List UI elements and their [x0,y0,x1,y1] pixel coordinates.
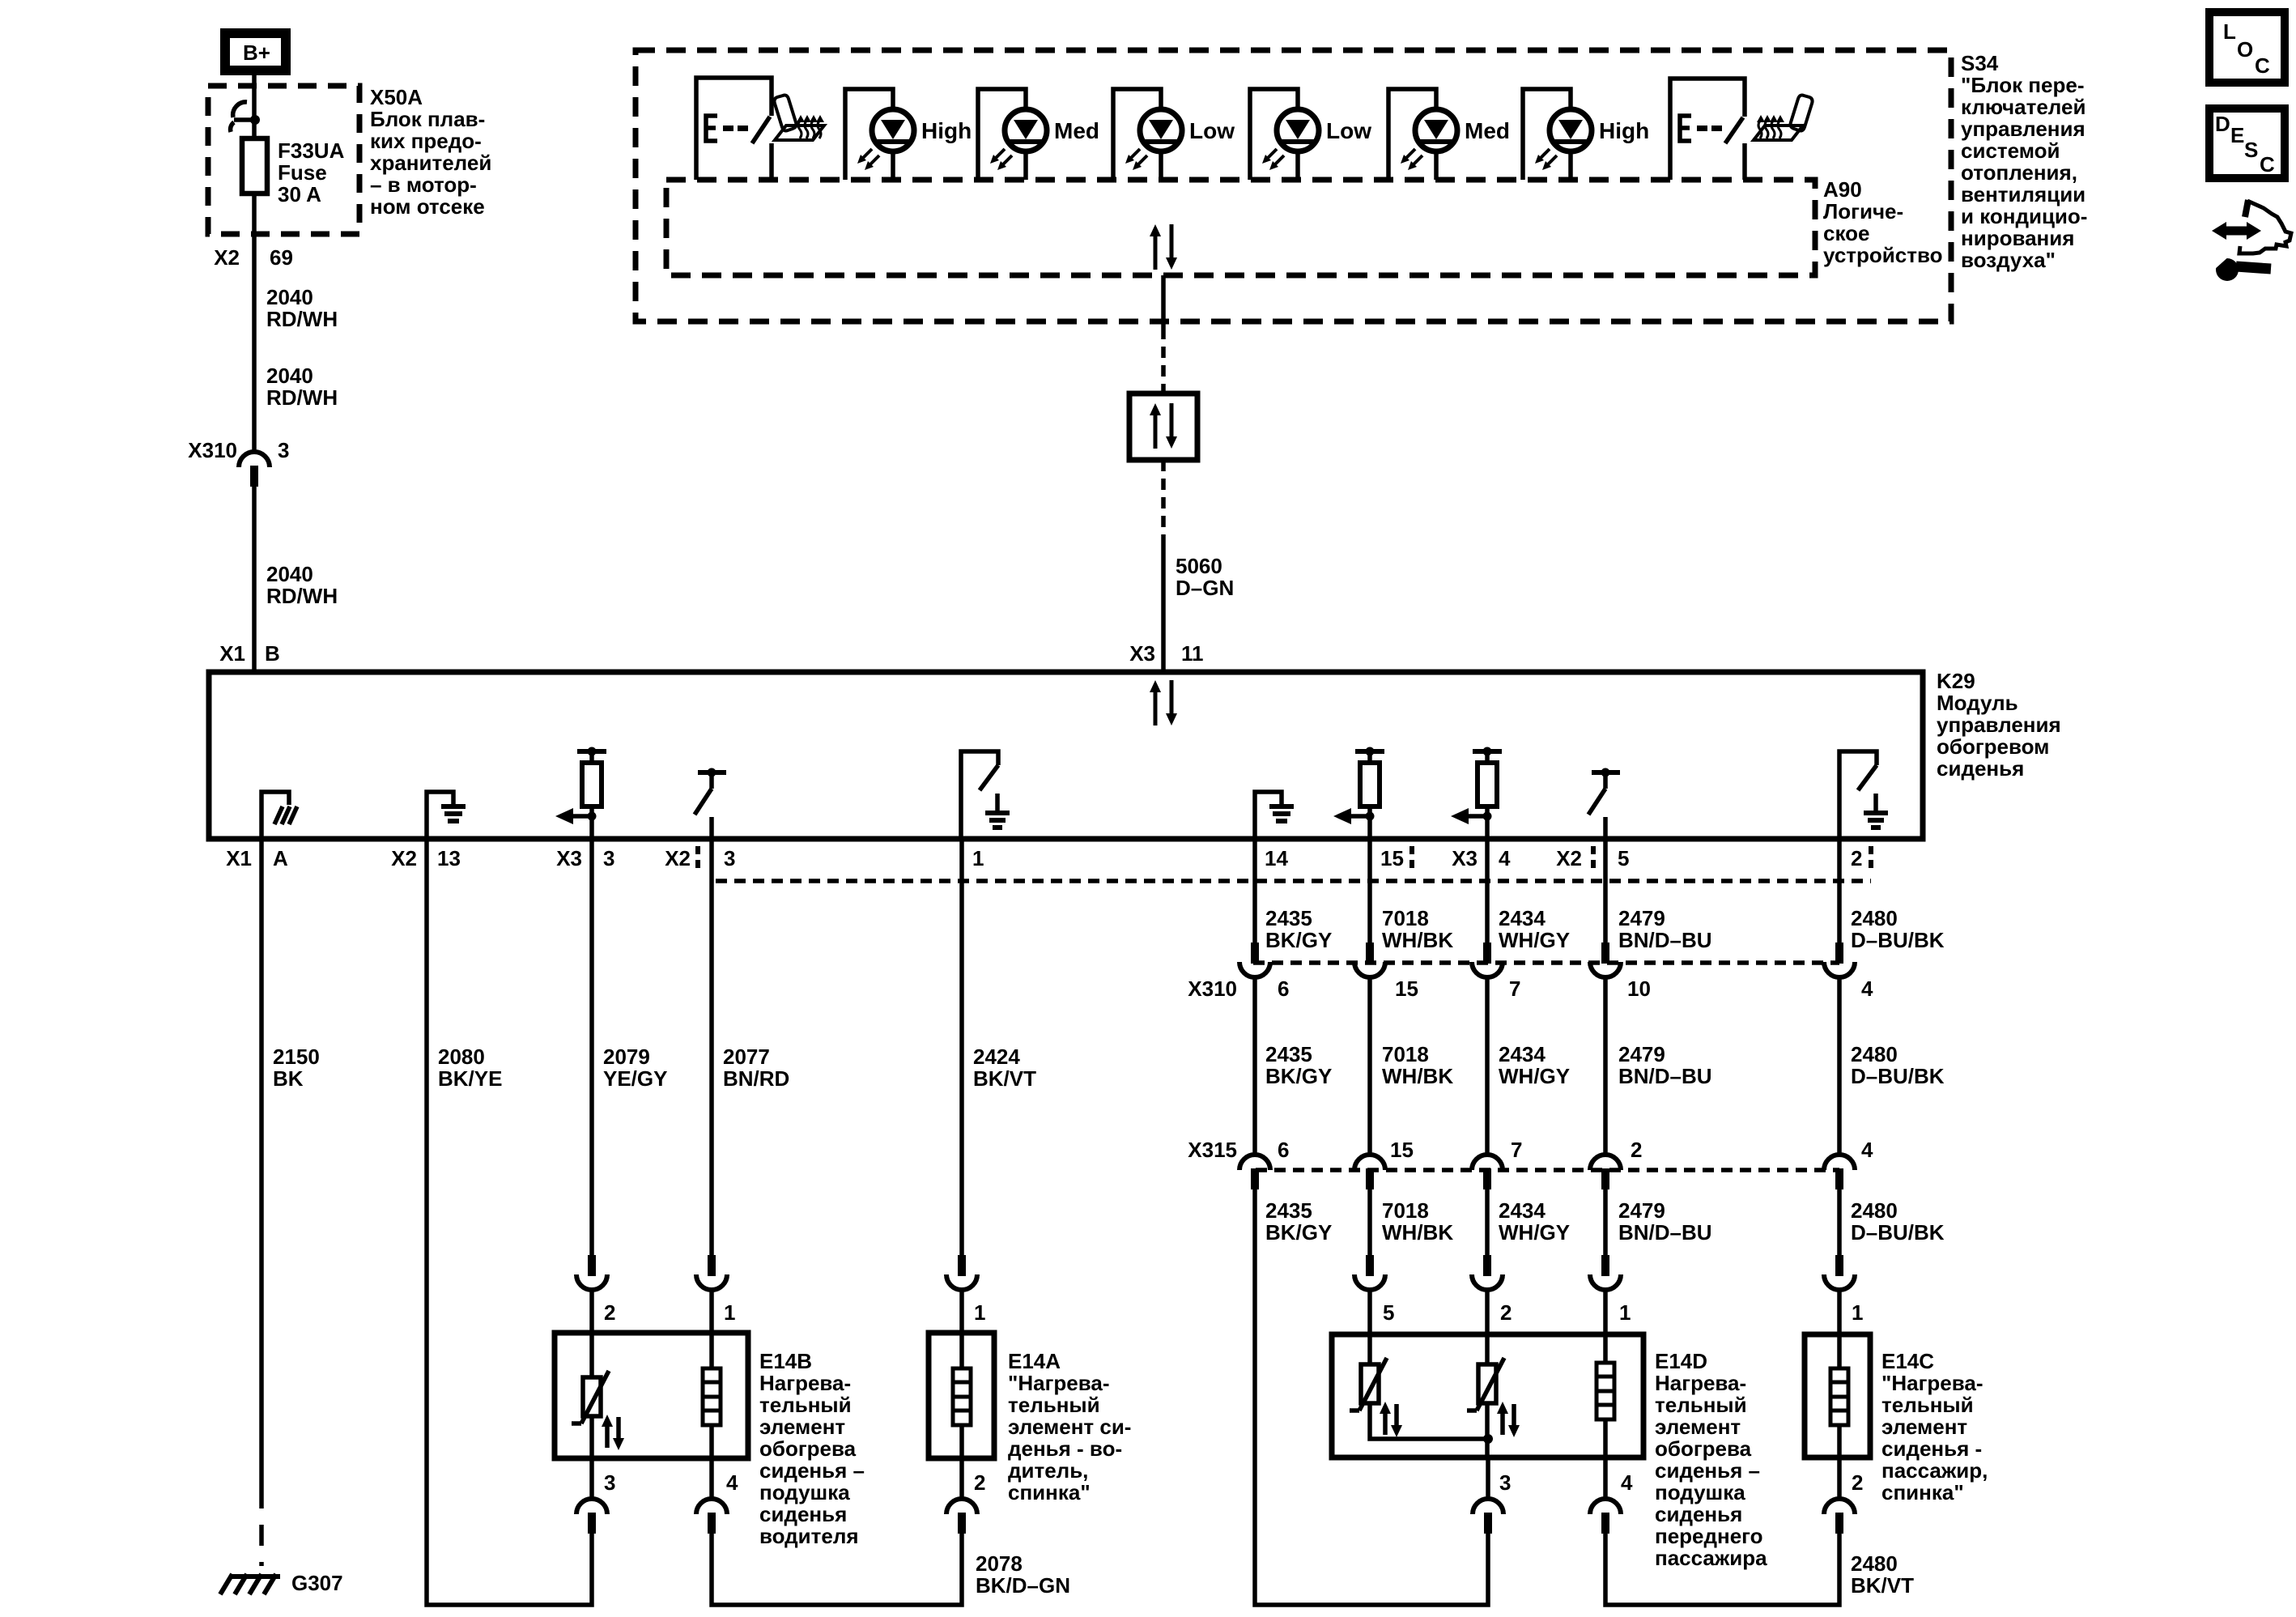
svg-text:WH/BK: WH/BK [1382,1220,1453,1245]
svg-text:вентиляции: вентиляции [1961,182,2086,206]
svg-text:X310: X310 [1188,977,1237,1001]
svg-text:2: 2 [1500,1300,1512,1325]
wire 7018 WH/BK segment 1 [1367,839,1372,943]
K29 internal ground pin 13 [427,792,466,839]
E14D heater resistor [1603,1334,1608,1363]
svg-text:BK/VT: BK/VT [973,1066,1036,1091]
svg-text:X2: X2 [665,846,691,870]
svg-text:6: 6 [1278,977,1289,1001]
svg-text:15: 15 [1380,846,1404,870]
svg-text:C: C [2260,152,2275,177]
svg-text:нирования: нирования [1961,226,2074,250]
wire B+ to fuse [252,75,257,138]
LED indicator Low driver [1113,89,1182,180]
connector E14B pin 4 [696,1499,727,1534]
svg-text:3: 3 [1499,1470,1511,1495]
svg-text:Логиче-: Логиче- [1823,199,1903,223]
svg-text:элемент: элемент [1655,1415,1741,1439]
wire 2080 BK/YE with bottom bus to E14B pin 3 [427,839,592,1605]
heater element E14B box [555,1333,748,1458]
E14A heater resistor [959,1333,964,1368]
svg-text:Нагрева-: Нагрева- [1655,1371,1746,1395]
svg-text:подушка: подушка [759,1480,850,1504]
wire 2434 WH/GY segment 3 [1485,1189,1490,1255]
svg-text:5: 5 [1618,846,1629,870]
svg-text:X310: X310 [188,438,237,462]
svg-text:сиденья: сиденья [1937,756,2024,781]
svg-text:Low: Low [1326,118,1371,143]
svg-text:2480: 2480 [1851,1042,1898,1066]
svg-text:управления: управления [1937,713,2061,737]
svg-text:13: 13 [437,846,461,870]
LED indicator High driver [845,89,914,180]
svg-text:Блок плав-: Блок плав- [370,107,485,131]
svg-text:денья - во-: денья - во- [1008,1436,1122,1461]
connector E14A pin 1 [946,1255,977,1290]
svg-text:сиденья: сиденья [759,1502,847,1526]
svg-text:отопления,: отопления, [1961,160,2077,185]
svg-text:"Нагрева-: "Нагрева- [1008,1371,1110,1395]
svg-text:2480: 2480 [1851,1198,1898,1223]
connector X310 pin 15 [1354,943,1385,977]
svg-text:RD/WH: RD/WH [266,307,338,331]
svg-text:10: 10 [1627,977,1651,1001]
connector X315 pin 4 [1824,1155,1855,1189]
svg-text:7018: 7018 [1382,906,1429,930]
E14B pin 3 wire [589,1458,594,1499]
svg-text:обогревом: обогревом [1937,734,2049,759]
svg-text:2150: 2150 [273,1045,320,1069]
svg-text:4: 4 [1499,846,1511,870]
wire A90 to gateway [1161,275,1166,328]
connector row X315 dashed [1256,1168,1839,1172]
E14D thermistor backrest [1485,1334,1490,1364]
K29 internal passenger switch [1588,768,1620,840]
svg-text:ном отсеке: ном отсеке [370,194,485,219]
wire 2435 BK/GY segment 1 [1252,839,1257,943]
svg-text:системой: системой [1961,138,2060,163]
connector row X310 dashed [1253,960,1839,965]
svg-text:15: 15 [1390,1138,1414,1162]
heated seat icon driver [774,96,824,141]
svg-text:B: B [265,641,280,666]
svg-text:тельный: тельный [1008,1393,1100,1417]
svg-text:тельный: тельный [759,1393,852,1417]
wire 7018 WH/BK segment 3 [1367,1189,1372,1255]
svg-text:RD/WH: RD/WH [266,385,338,410]
E14D pin 4 wire [1603,1457,1608,1499]
svg-text:спинка": спинка" [1881,1480,1964,1504]
svg-text:2435: 2435 [1265,1042,1312,1066]
svg-text:X3: X3 [1452,846,1478,870]
serial data gateway box [1129,394,1197,460]
ground G307 [220,1574,280,1594]
service icon car with arrow and wrench [2245,200,2248,217]
wire 2479 BN/D-BU segment 2 [1603,977,1608,1155]
svg-text:BK/GY: BK/GY [1265,928,1332,952]
svg-text:4: 4 [726,1470,738,1495]
svg-text:B+: B+ [243,40,270,65]
svg-text:X3: X3 [1129,641,1155,666]
svg-text:L: L [2223,19,2236,44]
svg-text:BK/GY: BK/GY [1265,1220,1332,1245]
svg-text:сиденья: сиденья [1655,1502,1742,1526]
svg-text:WH/BK: WH/BK [1382,928,1453,952]
svg-text:пассажира: пассажира [1655,1546,1767,1570]
svg-text:"Блок пере-: "Блок пере- [1961,73,2084,97]
svg-text:A90: A90 [1823,177,1862,202]
svg-text:1: 1 [724,1300,735,1325]
svg-text:4: 4 [1621,1470,1633,1495]
wire 2150 BK to ground [259,839,264,1487]
svg-text:E: E [2230,123,2244,147]
DESC legend box [2209,109,2285,178]
LED indicator Med passenger [1388,89,1457,180]
wire fuse to X310 [252,194,257,452]
svg-text:5: 5 [1383,1300,1394,1325]
svg-text:WH/BK: WH/BK [1382,1064,1453,1088]
svg-text:воздуха": воздуха" [1961,248,2056,272]
svg-text:2479: 2479 [1618,1198,1665,1223]
connector E14D pin 3 [1473,1499,1503,1534]
svg-text:2480: 2480 [1851,1551,1898,1576]
wire 2479 BN/D-BU segment 3 [1603,1189,1608,1255]
svg-text:элемент: элемент [759,1415,845,1439]
svg-text:WH/GY: WH/GY [1499,1064,1570,1088]
logic device A90 dashed box [666,180,1815,275]
svg-text:O: O [2237,37,2253,62]
wire X310 to K29 pin X1 B [252,487,257,672]
heater element E14C box [1805,1334,1870,1457]
svg-text:5060: 5060 [1176,554,1222,578]
heated seat icon passenger [1754,96,1813,141]
connector X315 pin 7 [1472,1155,1503,1189]
svg-text:15: 15 [1395,977,1418,1001]
svg-text:3: 3 [278,438,289,462]
svg-text:пассажир,: пассажир, [1881,1458,1988,1483]
svg-text:2: 2 [1631,1138,1642,1162]
svg-text:Модуль: Модуль [1937,691,2018,715]
fuse block X50A dashed box [208,86,359,234]
svg-text:7: 7 [1511,1138,1522,1162]
svg-text:D–BU/BK: D–BU/BK [1851,928,1945,952]
svg-text:2: 2 [1852,1470,1863,1495]
svg-text:4: 4 [1861,1138,1873,1162]
svg-text:1: 1 [974,1300,985,1325]
connector E14C pin 1 [1824,1255,1855,1290]
connector E14D pin 4 [1590,1499,1621,1534]
svg-text:2080: 2080 [438,1045,485,1069]
svg-text:A: A [273,846,288,870]
double arrow [2223,227,2250,236]
wire 2480 D-BU/BK segment 3 [1837,1189,1842,1255]
connector X310 pin 4 [1824,943,1855,977]
svg-text:D: D [2215,112,2230,136]
svg-text:2: 2 [604,1300,615,1325]
svg-text:2479: 2479 [1618,906,1665,930]
svg-text:элемент: элемент [1881,1415,1967,1439]
svg-text:14: 14 [1265,846,1288,870]
svg-text:D–BU/BK: D–BU/BK [1851,1064,1945,1088]
svg-text:BK/GY: BK/GY [1265,1064,1332,1088]
svg-text:устройство: устройство [1823,243,1942,267]
dashed reference wire to other circuit [716,879,1871,883]
wire 2079 YE/GY [589,839,594,1255]
svg-text:2: 2 [974,1470,985,1495]
heater element E14A box [929,1333,994,1458]
svg-text:RD/WH: RD/WH [266,584,338,608]
svg-text:C: C [2255,53,2270,78]
svg-text:7018: 7018 [1382,1198,1429,1223]
svg-text:X1: X1 [226,846,252,870]
svg-text:BK/VT: BK/VT [1851,1573,1914,1598]
connector E14B pin 3 [576,1499,607,1534]
svg-text:BN/RD: BN/RD [723,1066,789,1091]
svg-text:BK: BK [273,1066,304,1091]
svg-text:BN/D–BU: BN/D–BU [1618,1220,1712,1245]
connector X315 pin 2 [1590,1155,1621,1189]
K29 internal chassis ground pin A [261,792,297,839]
fuse holder clip symbol [231,102,260,132]
svg-text:S34: S34 [1961,51,1999,75]
svg-text:X50A: X50A [370,85,423,109]
switch S34 passenger seat [1670,79,1745,180]
bottom bus 2078 BK/D-GN E14B pin4 to E14A pin2 [712,1534,962,1605]
svg-text:BN/D–BU: BN/D–BU [1618,928,1712,952]
svg-text:ское: ское [1823,221,1869,245]
E14B pin 4 wire [709,1458,714,1499]
fuse F33UA 30A [242,138,267,194]
svg-text:1: 1 [1619,1300,1631,1325]
svg-text:2040: 2040 [266,285,313,309]
svg-text:Low: Low [1189,118,1235,143]
wire 2435 BK/GY segment 2 [1252,977,1257,1155]
svg-text:D–GN: D–GN [1176,576,1234,600]
svg-text:дитель,: дитель, [1008,1458,1088,1483]
svg-text:X1: X1 [219,641,245,666]
svg-text:D–BU/BK: D–BU/BK [1851,1220,1945,1245]
LED indicator Low passenger [1250,89,1319,180]
svg-text:BK/YE: BK/YE [438,1066,502,1091]
LED indicator High passenger [1523,89,1592,180]
svg-text:Med: Med [1054,118,1099,143]
wrench [2236,266,2271,269]
battery feed B+ [225,33,286,70]
svg-text:управления: управления [1961,117,2086,141]
svg-text:переднего: переднего [1655,1524,1763,1548]
svg-text:2079: 2079 [603,1045,650,1069]
svg-text:E14D: E14D [1655,1349,1707,1373]
E14B thermistor [589,1333,594,1377]
svg-text:6: 6 [1278,1138,1289,1162]
svg-text:2: 2 [1851,846,1862,870]
E14D thermistor cushion [1367,1334,1372,1364]
svg-text:3: 3 [604,1470,615,1495]
svg-text:X315: X315 [1188,1138,1237,1162]
svg-text:элемент си-: элемент си- [1008,1415,1131,1439]
svg-text:2040: 2040 [266,562,313,586]
svg-text:2040: 2040 [266,364,313,388]
svg-text:2435: 2435 [1265,1198,1312,1223]
bottom bus 2480 BK/VT E14D pin4 to E14C pin2 [1605,1534,1839,1605]
wire 2480 D-BU/BK segment 1 [1837,839,1842,943]
LED indicator Med driver [978,89,1047,180]
wire 2424 BK/VT [959,839,964,1255]
svg-text:Fuse: Fuse [278,160,327,185]
svg-text:Нагрева-: Нагрева- [759,1371,851,1395]
K29 internal driver ground switch [961,751,1010,839]
E14C heater resistor [1837,1334,1842,1368]
svg-text:1: 1 [972,846,984,870]
svg-text:2434: 2434 [1499,1042,1546,1066]
svg-text:2424: 2424 [973,1045,1020,1069]
svg-text:обогрева: обогрева [1655,1436,1752,1461]
svg-text:Med: Med [1465,118,1510,143]
wire 2434 WH/GY segment 1 [1485,839,1490,943]
serial data arrows inside K29 [1150,680,1177,726]
K29 seat heating control module box [209,672,1923,839]
connector E14B pin 1 [696,1255,727,1290]
connector X315 pin 15 [1354,1155,1385,1189]
svg-text:водителя: водителя [759,1524,859,1548]
wire 7018 WH/BK segment 2 [1367,977,1372,1155]
K29 internal driver cushion sensor resistor [555,747,606,840]
connector E14B pin 2 [576,1255,607,1290]
K29 internal passenger ground switch [1839,751,1888,839]
svg-text:2078: 2078 [976,1551,1023,1576]
LOC legend box [2209,12,2285,83]
svg-text:– в мотор-: – в мотор- [370,172,477,197]
svg-text:тельный: тельный [1881,1393,1974,1417]
connector E14C pin 2 [1824,1499,1855,1534]
svg-text:хранителей: хранителей [370,151,491,175]
svg-text:E14C: E14C [1881,1349,1934,1373]
connector E14A pin 2 [946,1499,977,1534]
svg-text:E14B: E14B [759,1349,812,1373]
svg-text:BN/D–BU: BN/D–BU [1618,1064,1712,1088]
E14D pin 3 wire [1486,1457,1490,1499]
svg-text:сиденья -: сиденья - [1881,1436,1982,1461]
svg-text:X2: X2 [1556,846,1582,870]
serial data arrows inside A90 [1150,224,1177,270]
K29 internal passenger sensor resistor 4 [1451,747,1502,840]
svg-text:X2: X2 [214,245,240,270]
svg-text:K29: K29 [1937,669,1975,693]
connector X310 pin 10 [1590,943,1621,977]
svg-text:сиденья –: сиденья – [1655,1458,1760,1483]
svg-text:3: 3 [724,846,735,870]
E14B heater resistor [709,1333,714,1368]
svg-text:2077: 2077 [723,1045,770,1069]
E14C pin 2 wire [1837,1457,1842,1499]
svg-text:спинка": спинка" [1008,1480,1091,1504]
svg-text:2480: 2480 [1851,906,1898,930]
heater element E14D box [1332,1334,1643,1457]
svg-text:High: High [1599,118,1649,143]
connector X310 pin 6 [1239,943,1270,977]
switch block S34 dashed box [636,50,1951,321]
svg-text:"Нагрева-: "Нагрева- [1881,1371,1983,1395]
switch S34 driver seat [696,78,772,180]
wire gateway to K29 [1161,460,1166,544]
svg-text:E14A: E14A [1008,1349,1061,1373]
svg-text:F33UA: F33UA [278,138,345,163]
svg-text:обогрева: обогрева [759,1436,857,1461]
connector E14D pin 2 [1472,1255,1503,1290]
connector X310 pin 7 [1472,943,1503,977]
svg-text:X3: X3 [556,846,582,870]
svg-text:2434: 2434 [1499,1198,1546,1223]
svg-text:2434: 2434 [1499,906,1546,930]
wire 2434 WH/GY segment 2 [1485,977,1490,1155]
svg-text:S: S [2244,138,2258,162]
svg-text:2479: 2479 [1618,1042,1665,1066]
svg-text:High: High [921,118,972,143]
svg-text:YE/GY: YE/GY [603,1066,667,1091]
svg-text:G307: G307 [291,1571,343,1595]
svg-text:69: 69 [270,245,293,270]
connector E14D pin 5 [1354,1255,1385,1290]
svg-text:30 A: 30 A [278,182,321,206]
K29 internal driver switch [695,768,726,840]
K29 internal ground pin 14 [1255,792,1294,839]
wire 2480 D-BU/BK segment 2 [1837,977,1842,1155]
svg-text:тельный: тельный [1655,1393,1747,1417]
wire 2479 BN/D-BU segment 1 [1603,839,1608,943]
connector E14D pin 1 [1590,1255,1621,1290]
connector X315 pin 6 [1239,1155,1270,1189]
svg-text:подушка: подушка [1655,1480,1745,1504]
svg-text:и кондицио-: и кондицио- [1961,204,2087,228]
svg-text:11: 11 [1181,641,1204,666]
svg-text:7: 7 [1509,977,1520,1001]
svg-text:4: 4 [1861,977,1873,1001]
svg-text:ключателей: ключателей [1961,95,2086,119]
svg-text:ких предо-: ких предо- [370,129,482,153]
svg-text:WH/GY: WH/GY [1499,1220,1570,1245]
svg-text:3: 3 [603,846,614,870]
svg-text:BK/D–GN: BK/D–GN [976,1573,1070,1598]
K29 internal passenger sensor resistor 15 [1333,747,1384,840]
svg-text:1: 1 [1852,1300,1863,1325]
wire 2077 BN/RD [709,839,714,1255]
svg-text:WH/GY: WH/GY [1499,928,1570,952]
svg-text:сиденья –: сиденья – [759,1458,865,1483]
svg-text:X2: X2 [391,846,417,870]
E14A pin 2 wire [959,1458,964,1499]
wire 2435 BK/GY segment 3 with bottom bus to E14D pin 3 [1255,1189,1488,1605]
svg-text:2435: 2435 [1265,906,1312,930]
svg-text:7018: 7018 [1382,1042,1429,1066]
